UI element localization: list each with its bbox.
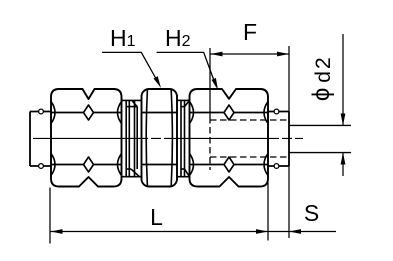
port circle top: [274, 109, 279, 114]
hex2 face lines: [142, 113, 178, 165]
svg-text:F: F: [243, 19, 257, 45]
L arrow right: [256, 229, 268, 234]
hex1 face line upper: [51, 113, 122, 165]
dimension line L and S: [51, 231, 337, 233]
dimension F extension line right: [288, 46, 290, 112]
dimension L extension right: [267, 182, 269, 241]
F arrow left: [211, 52, 223, 57]
threaded port: [268, 112, 289, 167]
S arrow left: [289, 229, 301, 234]
svg-text:2: 2: [312, 57, 335, 69]
port circle bottom: [274, 164, 279, 169]
sleeve joint 1: [122, 100, 142, 176]
hex1 chamfer horns right: [118, 102, 122, 176]
hex1 diamond upper: [84, 105, 94, 120]
hex nut 3 outline (right): [190, 89, 269, 187]
L arrow left: [51, 229, 63, 234]
left claw circle top: [39, 109, 44, 114]
F arrow right: [277, 52, 289, 57]
hex nut 2 outline (middle): [142, 89, 178, 187]
hex2 chamfer arc left: [146, 90, 147, 186]
leader H2: [157, 52, 216, 86]
phi d2 arrow up: [341, 153, 346, 165]
dimension phi d2 line lower: [342, 153, 344, 177]
hex3 diamond upper: [224, 105, 234, 120]
left tube bracket: [30, 112, 51, 167]
hex3 diamond lower: [224, 157, 234, 172]
svg-text:d: d: [312, 71, 335, 83]
dimension phi d2 line upper: [342, 34, 344, 126]
dimension F line: [211, 53, 290, 55]
dimension F extension line left: [209, 48, 211, 117]
hex2 chamfer arc right: [171, 90, 172, 186]
H2 arrowhead: [212, 78, 219, 90]
svg-text:S: S: [304, 200, 319, 226]
sleeve joint 2: [177, 100, 190, 176]
phi d2 arrow down: [341, 114, 346, 126]
tube outline right: [289, 125, 351, 152]
left claw circle bottom: [39, 164, 44, 169]
svg-text:L: L: [150, 204, 163, 230]
centerline: [33, 137, 303, 139]
hex1 diamond lower: [84, 157, 94, 172]
H1 arrowhead: [154, 76, 162, 88]
hex3 chamfer horns right: [264, 102, 268, 176]
hex3 chamfer horns left: [190, 102, 194, 176]
hex3 face line upper: [190, 113, 269, 165]
leader H1: [102, 52, 159, 84]
hex nut 1 outline (left): [51, 89, 122, 187]
hex1 chamfer horns left: [51, 102, 55, 176]
svg-text:ϕ: ϕ: [308, 88, 335, 101]
dimension L extension left: [49, 188, 51, 244]
hidden thread dashed lines: [210, 117, 289, 170]
